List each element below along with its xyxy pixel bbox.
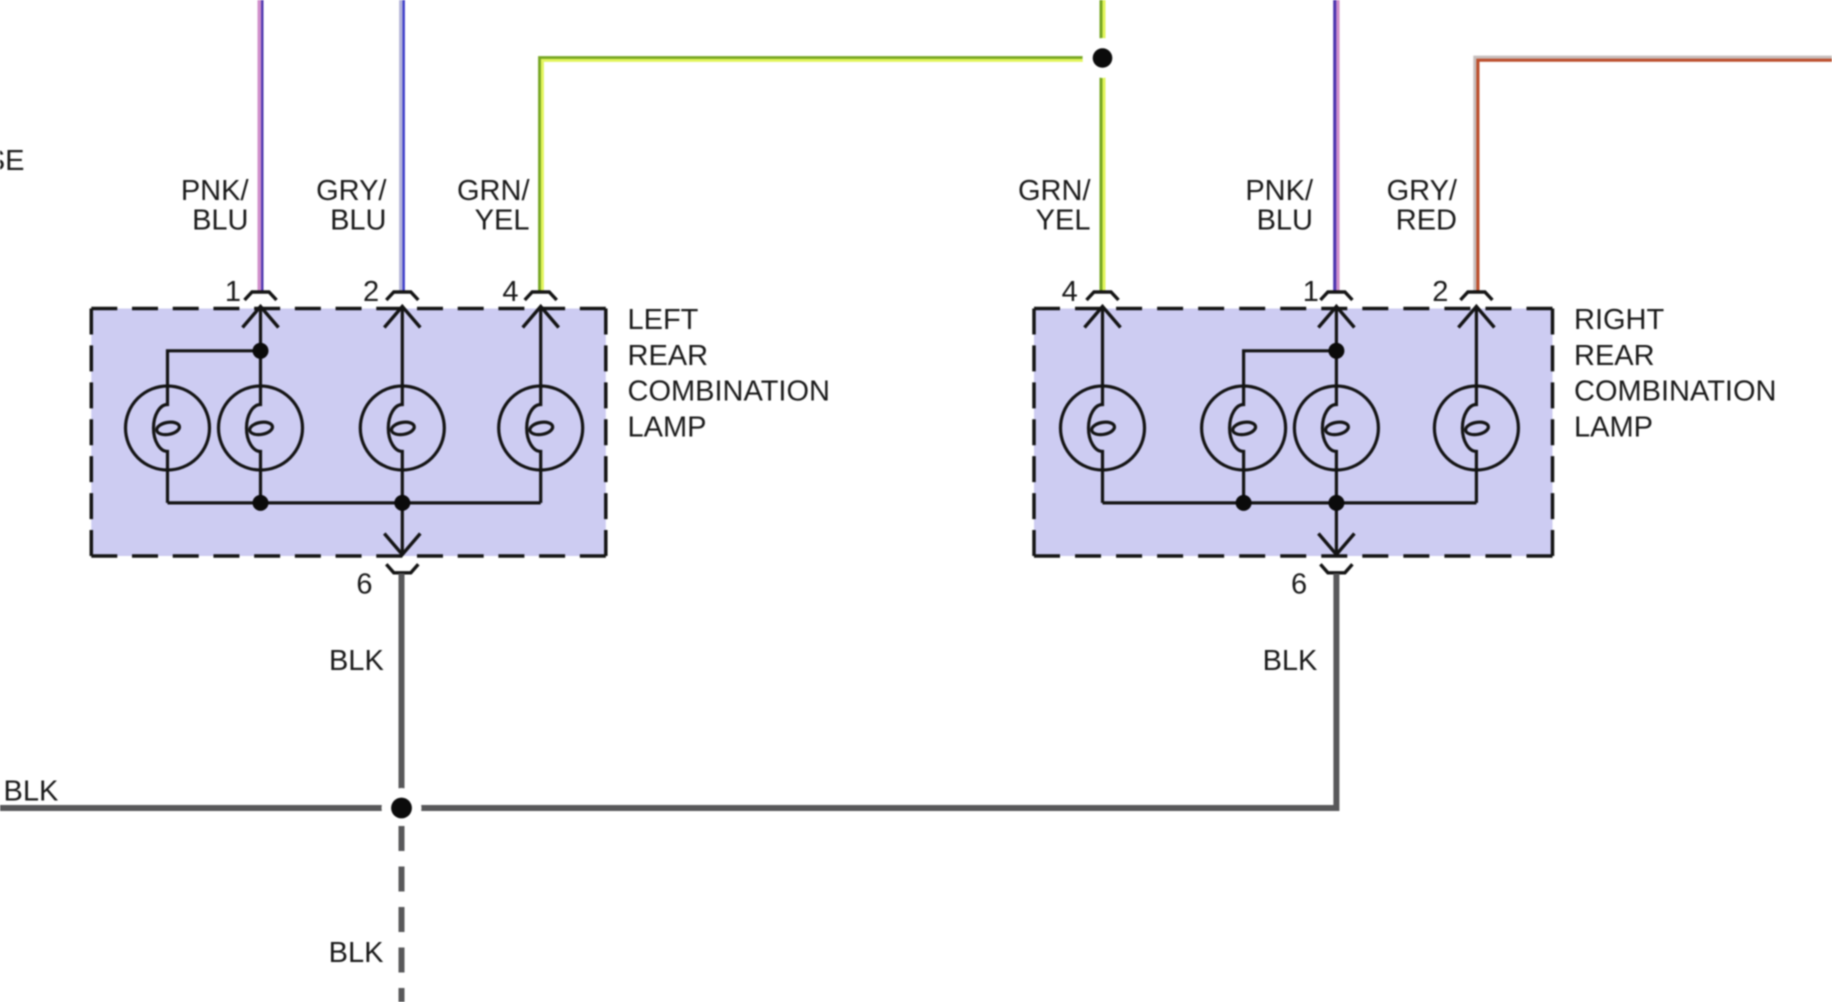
svg-text:GRY/: GRY/: [316, 175, 387, 207]
svg-text:4: 4: [502, 276, 518, 308]
svg-text:YEL: YEL: [1036, 205, 1091, 237]
svg-text:RED: RED: [1396, 205, 1457, 237]
svg-text:RIGHT: RIGHT: [1574, 304, 1665, 336]
svg-text:YEL: YEL: [475, 205, 530, 237]
svg-text:REAR: REAR: [1574, 340, 1655, 372]
svg-text:BLK: BLK: [1263, 645, 1318, 677]
svg-text:1: 1: [225, 276, 241, 308]
svg-text:BLK: BLK: [329, 645, 384, 677]
svg-text:COMBINATION: COMBINATION: [628, 376, 830, 408]
svg-text:BLU: BLU: [192, 205, 248, 237]
svg-text:BLK: BLK: [329, 937, 384, 969]
svg-text:BLK: BLK: [4, 776, 59, 808]
svg-text:BLU: BLU: [330, 205, 386, 237]
svg-text:LEFT: LEFT: [628, 304, 699, 336]
svg-text:4: 4: [1062, 276, 1078, 308]
svg-text:GRN/: GRN/: [1018, 175, 1091, 207]
svg-text:BLU: BLU: [1257, 205, 1313, 237]
svg-text:2: 2: [363, 276, 379, 308]
svg-text:LAMP: LAMP: [628, 411, 707, 443]
svg-text:PNK/: PNK/: [1245, 175, 1314, 207]
svg-text:1: 1: [1303, 276, 1319, 308]
svg-text:GRN/: GRN/: [457, 175, 530, 207]
svg-text:6: 6: [1291, 569, 1307, 601]
svg-text:LAMP: LAMP: [1574, 411, 1653, 443]
svg-text:6: 6: [356, 569, 372, 601]
svg-text:REAR: REAR: [628, 340, 709, 372]
svg-text:2: 2: [1432, 276, 1448, 308]
svg-text:PNK/: PNK/: [181, 175, 250, 207]
svg-text:GRY/: GRY/: [1387, 175, 1458, 207]
svg-text:NSE: NSE: [0, 145, 25, 177]
svg-text:COMBINATION: COMBINATION: [1574, 376, 1776, 408]
